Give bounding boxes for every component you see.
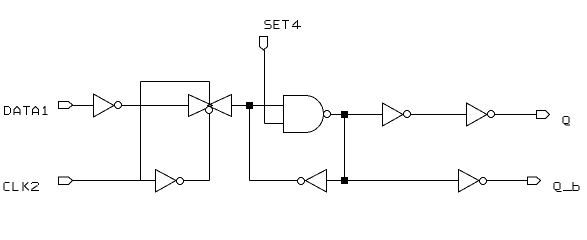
label Q_b [554,182,579,192]
wire CLK2 branch vertical rail [140,82,142,182]
wire DATA1 pin to inverter U1 [73,105,94,107]
inverter U1 (DATA1 input buffer) [94,94,122,117]
inverter U9 (Q_b buffer) [459,170,487,193]
inverter U8 (Q buffer 2) [467,103,495,126]
wire node N1 feedback vertical [249,109,251,181]
output pin Q [537,111,550,119]
wire transmission gate output to node N1 [232,105,247,107]
input pin SET4 [260,37,268,51]
wire SET4 to NAND U2 input B [265,123,284,125]
wire U9 output to Q_b pin [486,180,528,182]
wire node N1 to NAND U2 input A [253,105,284,107]
label DATA1 [4,106,48,115]
wire feedback inverter U6 output to node N1 [250,180,298,182]
wire U7 output to inverter U8 [410,114,467,116]
junction node N3 [341,177,348,184]
wire CLK2 pin to inverter U5 [73,180,156,182]
junction node N1 [246,102,253,109]
wire node N2 to inverter U7 [348,114,383,116]
wire SET4 pin vertical [264,50,266,124]
wire NAND U2 output to node N2 [331,114,342,116]
input pin DATA1 [59,102,73,109]
label CLK2 [4,182,39,191]
wire node N3 to inverter U9 [348,180,459,182]
inverter U5 (clock inverter) [156,170,184,193]
wire U1 output to transmission gate U3 [121,105,189,107]
wire node N2 to node N3 vertical [344,118,346,181]
wire node N3 to feedback inverter U6 input [327,180,342,182]
wire U8 output to Q pin [494,114,537,116]
junction node N2 [341,111,348,118]
wire U5 output to transmission gate bottom control [183,180,210,182]
wire transmission gate top control stub [209,82,211,106]
label Q [563,117,570,125]
transmission gate U3 [189,95,232,117]
wire transmission gate bottom control stub [209,113,211,181]
inverter U6 (feedback, pointing left) [298,170,327,193]
wire top rail to transmission gate top control [141,81,210,83]
inverter U7 (Q buffer 1) [383,103,411,126]
output pin Q_b [528,177,541,185]
label SET4 [265,20,302,29]
NAND gate U2 [284,96,331,133]
input pin CLK2 [59,177,73,185]
